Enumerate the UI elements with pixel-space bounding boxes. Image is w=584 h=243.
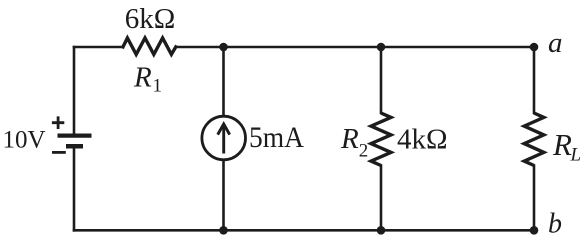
current source arrow: [218, 124, 230, 154]
node junction dot bottom current source: [219, 226, 228, 235]
battery minus sign: [52, 151, 66, 154]
svg-text:R: R: [133, 61, 152, 93]
node junction dot top current source: [219, 43, 228, 52]
node junction dot bottom R2: [377, 226, 386, 235]
resistor R1: [123, 38, 176, 54]
svg-text:a: a: [548, 27, 563, 59]
wire bottom: [74, 229, 534, 232]
wire top main: [176, 46, 534, 49]
wire R2 lower lead: [380, 166, 383, 231]
svg-text:6kΩ: 6kΩ: [125, 3, 176, 35]
wire RL upper lead: [533, 47, 536, 113]
svg-text:10V: 10V: [3, 127, 46, 154]
wire current source upper lead: [222, 47, 225, 116]
resistor R2 zigzag: [371, 113, 391, 166]
node a dot: [530, 43, 539, 52]
current source U1 circle: [202, 116, 246, 160]
svg-text:5mA: 5mA: [249, 121, 304, 154]
node b dot: [530, 226, 539, 235]
wire current source lower lead: [222, 161, 225, 231]
svg-text:R: R: [340, 123, 359, 155]
svg-text:b: b: [548, 209, 562, 240]
resistor RL zigzag: [524, 113, 544, 166]
svg-text:4kΩ: 4kΩ: [397, 123, 448, 155]
wire left vertical lower: [73, 148, 76, 230]
svg-text:2: 2: [359, 140, 369, 161]
battery plus sign: [52, 116, 64, 129]
battery V1 plates: [58, 136, 92, 147]
wire left vertical upper: [73, 47, 76, 134]
wire R2 upper lead: [380, 47, 383, 113]
svg-text:R: R: [552, 127, 572, 162]
wire top-left segment: [74, 46, 123, 49]
svg-text:1: 1: [153, 75, 163, 96]
node junction dot top R2: [377, 43, 386, 52]
svg-text:L: L: [570, 145, 582, 166]
wire RL lower lead: [533, 166, 536, 231]
